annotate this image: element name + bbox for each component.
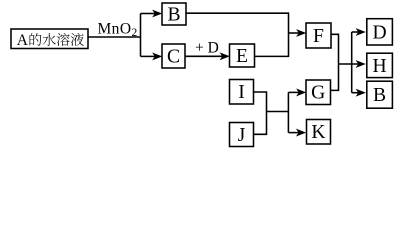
svg-text:C: C — [167, 47, 180, 68]
box I — [230, 80, 254, 105]
svg-text:E: E — [236, 46, 248, 67]
wire A output to splitter — [88, 36, 141, 38]
svg-text:K: K — [311, 122, 325, 143]
wire I/J merge loop — [254, 92, 267, 134]
arrowhead into B — [153, 10, 162, 17]
svg-text:H: H — [373, 56, 387, 77]
wire to K — [288, 132, 299, 134]
box J — [230, 123, 254, 147]
box D — [367, 19, 393, 45]
svg-text:I: I — [238, 82, 245, 103]
svg-text:G: G — [311, 83, 325, 104]
wire to C — [141, 55, 156, 57]
wire right distributor — [351, 32, 353, 93]
svg-text:D: D — [373, 22, 387, 43]
wire to B — [141, 13, 156, 15]
box E — [230, 44, 255, 67]
arrowhead into K — [297, 129, 306, 136]
box G — [306, 80, 331, 105]
wire splitter riser — [140, 14, 142, 57]
box H — [367, 53, 393, 77]
arrowhead into E — [220, 53, 229, 60]
wire to H — [339, 63, 359, 65]
arrowhead into F — [297, 30, 306, 37]
wire B/E merge loop — [186, 13, 289, 56]
box F — [306, 23, 331, 48]
svg-text:J: J — [238, 125, 246, 146]
wire merge link — [267, 111, 289, 113]
svg-text:B: B — [167, 5, 180, 26]
wire to G — [288, 91, 299, 93]
box B — [162, 3, 186, 26]
wire F/G merge loop — [331, 34, 339, 90]
wire to D — [352, 31, 359, 33]
svg-text:MnO2: MnO2 — [98, 21, 138, 40]
arrowhead into G — [297, 89, 306, 96]
wire to B2 — [352, 92, 359, 94]
svg-text:+ D: + D — [195, 40, 219, 57]
svg-text:B: B — [373, 85, 386, 106]
box K — [307, 120, 331, 145]
arrowhead into D — [356, 29, 365, 36]
svg-text:F: F — [313, 26, 324, 47]
box A-solution — [11, 29, 88, 49]
wire C to E — [185, 55, 223, 57]
svg-text:A: A — [17, 32, 29, 49]
arrowhead into C — [153, 53, 162, 60]
wire merge to F — [289, 32, 300, 34]
arrowhead into H — [356, 61, 365, 68]
wire G/K splitter — [287, 92, 289, 132]
box C — [162, 44, 185, 68]
arrowhead into B2 — [356, 89, 365, 96]
text A的水溶液 — [17, 32, 84, 49]
box B2 — [367, 81, 393, 108]
